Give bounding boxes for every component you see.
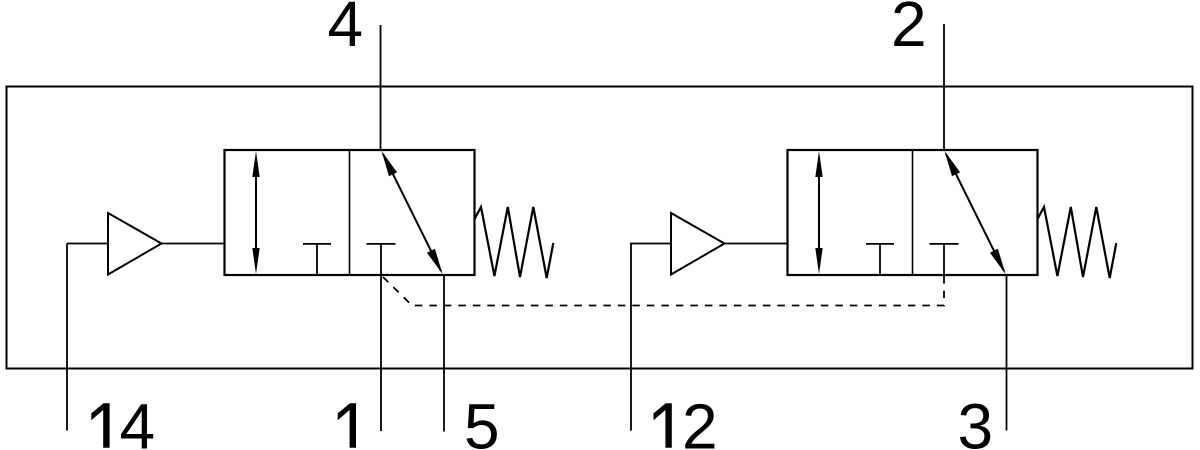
svg-text:2: 2: [682, 390, 718, 450]
svg-text:4: 4: [120, 390, 156, 450]
svg-text:4: 4: [328, 0, 364, 60]
svg-text:3: 3: [958, 390, 994, 450]
svg-text:5: 5: [464, 390, 500, 450]
svg-text:2: 2: [891, 0, 927, 60]
